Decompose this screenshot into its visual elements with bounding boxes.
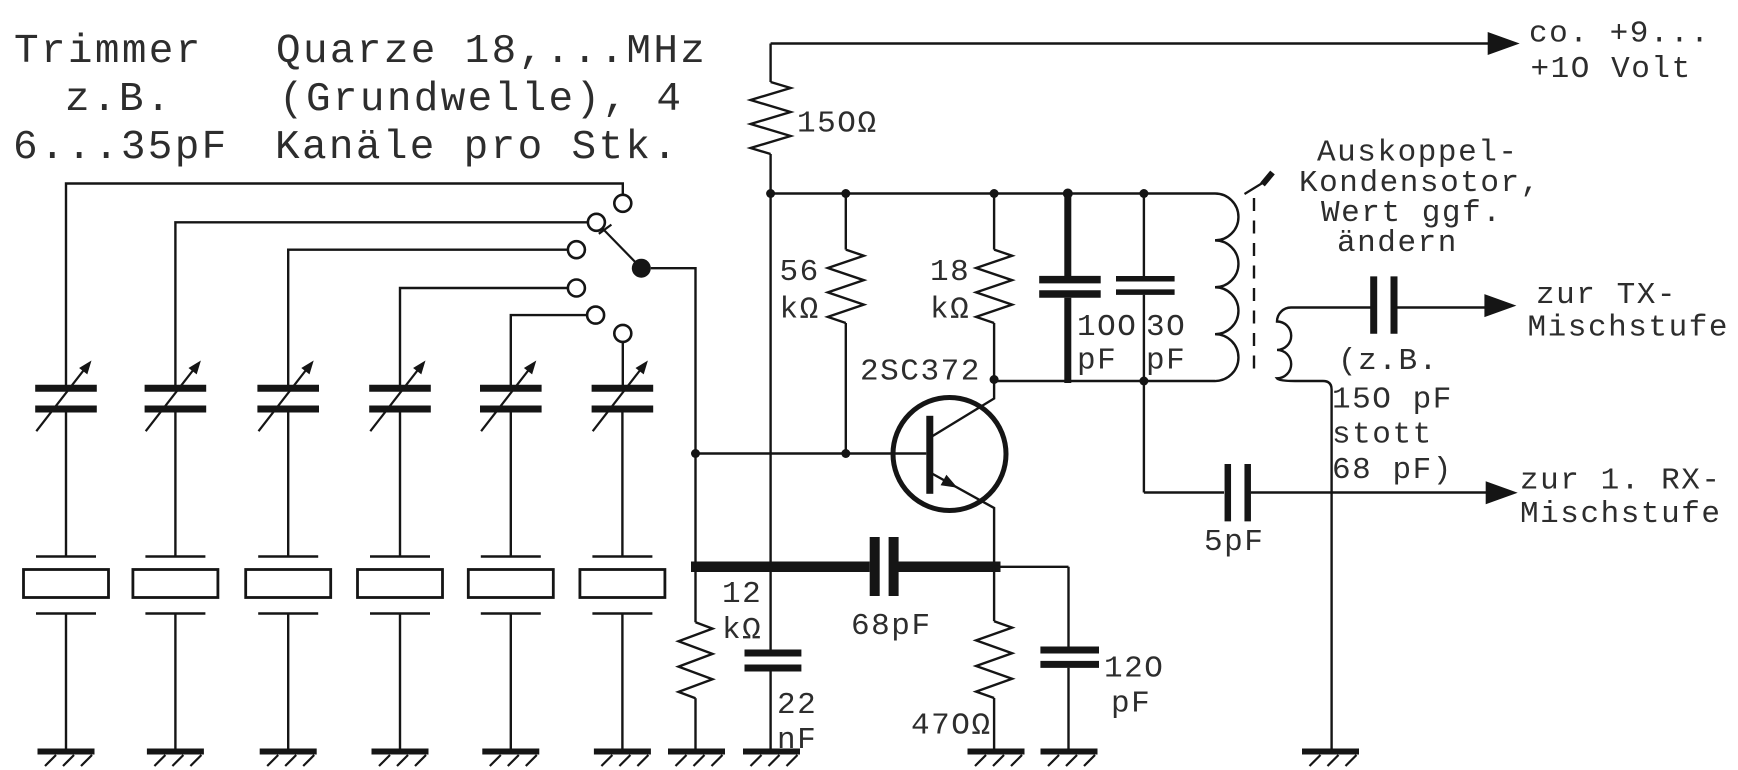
crystal X2 (Quarz)	[133, 557, 218, 614]
capacitor C7 TX coupling (68pF)	[1374, 276, 1394, 333]
node dot collector	[990, 375, 999, 384]
transformer core (dashed)	[1253, 198, 1255, 370]
capacitor C6 120pF	[1040, 650, 1099, 664]
svg-text:zur TX-: zur TX-	[1536, 278, 1677, 313]
switch pole	[632, 259, 651, 278]
wire Vcc to 22nF	[769, 194, 771, 651]
resistor R4 12kΩ	[679, 622, 713, 698]
wire	[845, 323, 847, 454]
wire	[769, 44, 771, 83]
wire 30pF node down	[1143, 381, 1145, 493]
trimmer capacitor CT3 (6...35pF)	[257, 361, 319, 432]
wire +9V supply rail	[771, 42, 1490, 44]
switch contact 5	[587, 307, 604, 324]
wire	[993, 194, 995, 250]
svg-text:15OΩ: 15OΩ	[797, 107, 878, 142]
trimmer capacitor CT1 (6...35pF)	[35, 361, 97, 432]
wire	[769, 671, 771, 751]
svg-text:3O: 3O	[1146, 310, 1186, 345]
node dot	[841, 449, 850, 458]
svg-text:zur 1. RX-: zur 1. RX-	[1520, 464, 1722, 499]
trimmer capacitor CT4 (6...35pF)	[369, 361, 431, 432]
svg-text:68 pF): 68 pF)	[1332, 453, 1453, 488]
ground	[594, 752, 651, 767]
node dot	[990, 189, 999, 198]
wire switch pole to base node	[651, 268, 696, 563]
capacitor C5 68pF	[875, 537, 894, 596]
switch arm tick	[599, 225, 612, 234]
wire channel 3 feed	[288, 250, 568, 385]
svg-text:kΩ: kΩ	[780, 292, 820, 327]
capacitor C2 100pF	[1039, 194, 1101, 384]
transformer primary L1	[1215, 194, 1238, 382]
wire collector bottom rail	[994, 380, 1215, 382]
svg-text:pF: pF	[1146, 344, 1186, 379]
wire	[694, 698, 696, 751]
switch contact 2	[588, 214, 605, 231]
svg-text:kΩ: kΩ	[722, 613, 762, 648]
svg-text:kΩ: kΩ	[930, 292, 970, 327]
svg-text:z.B.: z.B.	[65, 77, 173, 123]
wire	[510, 614, 512, 752]
ground	[147, 752, 204, 767]
capacitor C8 5pF	[1228, 464, 1248, 521]
wire	[621, 413, 623, 557]
wire	[1067, 567, 1069, 647]
wire	[1291, 306, 1371, 308]
svg-text:12: 12	[722, 577, 762, 612]
svg-text:(z.B.: (z.B.	[1338, 344, 1439, 379]
svg-text:Kanäle pro Stk.: Kanäle pro Stk.	[275, 125, 679, 171]
svg-text:nF: nF	[777, 723, 817, 758]
switch contact 3	[568, 241, 585, 258]
wire	[1143, 295, 1145, 381]
wire	[1067, 668, 1069, 751]
supply arrow	[1488, 32, 1520, 55]
wire	[510, 413, 512, 557]
wire	[1251, 491, 1486, 493]
wire	[287, 413, 289, 557]
node dot	[766, 189, 775, 198]
ground	[260, 752, 317, 767]
wire thick base-side	[691, 562, 870, 573]
switch contact 6	[614, 325, 631, 342]
wire	[1143, 194, 1145, 277]
svg-text:15O pF: 15O pF	[1332, 382, 1453, 417]
RX arrow	[1486, 481, 1518, 504]
ground	[372, 752, 429, 767]
TX arrow	[1484, 294, 1516, 317]
svg-text:5pF: 5pF	[1204, 525, 1264, 560]
svg-text:pF: pF	[1077, 344, 1117, 379]
wire 18k to collector	[993, 323, 995, 380]
wire Vcc node rail	[771, 192, 1215, 194]
node dot	[1139, 189, 1148, 198]
ground	[1302, 752, 1359, 767]
wire channel 4 feed	[400, 288, 568, 385]
wire	[621, 614, 623, 752]
svg-text:(Grundwelle), 4: (Grundwelle), 4	[279, 77, 683, 123]
svg-text:22: 22	[777, 688, 817, 723]
node dot	[841, 189, 850, 198]
node dot	[1139, 377, 1148, 386]
capacitor C3 30pF	[1116, 279, 1175, 292]
svg-text:12O: 12O	[1104, 651, 1164, 686]
svg-text:18: 18	[930, 255, 970, 290]
wire base	[696, 452, 927, 454]
crystal X6 (Quarz)	[580, 557, 665, 614]
resistor R2 56kΩ	[828, 250, 864, 323]
node dot base	[691, 449, 700, 458]
switch arm	[602, 228, 636, 262]
wire	[65, 413, 67, 557]
crystal X1 (Quarz)	[24, 557, 109, 614]
wire	[287, 614, 289, 752]
wire channel 2 feed	[175, 222, 588, 385]
ground	[743, 752, 800, 767]
wire	[65, 614, 67, 752]
transistor Q1 2SC372	[893, 380, 1006, 564]
wire	[993, 567, 995, 621]
wire channel 6 feed	[622, 342, 624, 385]
resistor R3 18kΩ	[976, 250, 1012, 323]
svg-text:pF: pF	[1111, 687, 1151, 722]
resistor R1 150Ω	[751, 82, 791, 154]
wire	[994, 566, 1068, 568]
trimmer capacitor CT5 (6...35pF)	[480, 361, 542, 432]
svg-text:68pF: 68pF	[851, 609, 932, 644]
svg-text:Mischstufe: Mischstufe	[1520, 497, 1722, 532]
svg-text:+1O Volt: +1O Volt	[1531, 52, 1692, 87]
wire	[399, 614, 401, 752]
svg-text:Mischstufe: Mischstufe	[1528, 311, 1730, 346]
crystal X4 (Quarz)	[358, 557, 443, 614]
wire	[174, 614, 176, 752]
crystal X5 (Quarz)	[468, 557, 553, 614]
resistor R5 470Ω	[976, 621, 1012, 698]
ground	[482, 752, 539, 767]
wire	[1144, 491, 1224, 493]
wire	[845, 194, 847, 250]
trimmer capacitor CT6 (6...35pF)	[592, 361, 654, 432]
wire	[174, 413, 176, 557]
wire	[993, 698, 995, 751]
wire	[694, 567, 696, 623]
wire channel 1 feed	[66, 184, 623, 386]
switch contact 4	[568, 280, 585, 297]
svg-text:stott: stott	[1332, 418, 1433, 453]
svg-text:Quarze 18,...MHz: Quarze 18,...MHz	[276, 29, 707, 75]
ground	[668, 752, 725, 767]
core adjust mark	[1245, 173, 1273, 195]
ground	[1041, 752, 1098, 767]
svg-text:56: 56	[780, 255, 820, 290]
wire	[1398, 306, 1487, 308]
ground	[968, 752, 1025, 767]
wire channel 5 feed	[511, 315, 587, 385]
svg-text:6...35pF: 6...35pF	[13, 125, 229, 171]
switch contact 1	[614, 195, 631, 212]
wire	[399, 413, 401, 557]
wire	[769, 154, 771, 194]
svg-text:1OO: 1OO	[1077, 310, 1137, 345]
svg-text:co. +9...: co. +9...	[1529, 17, 1710, 52]
svg-text:2SC372: 2SC372	[860, 355, 981, 390]
transformer secondary L2	[1277, 308, 1332, 752]
node dot	[1063, 189, 1073, 199]
trimmer capacitor CT2 (6...35pF)	[145, 361, 207, 432]
wire thick emitter-side	[899, 562, 1001, 573]
svg-text:ändern: ändern	[1337, 226, 1458, 261]
svg-text:Trimmer: Trimmer	[14, 29, 203, 75]
crystal X3 (Quarz)	[246, 557, 331, 614]
svg-text:47OΩ: 47OΩ	[911, 709, 992, 744]
ground	[38, 752, 95, 767]
capacitor C4 22nF	[745, 653, 802, 668]
